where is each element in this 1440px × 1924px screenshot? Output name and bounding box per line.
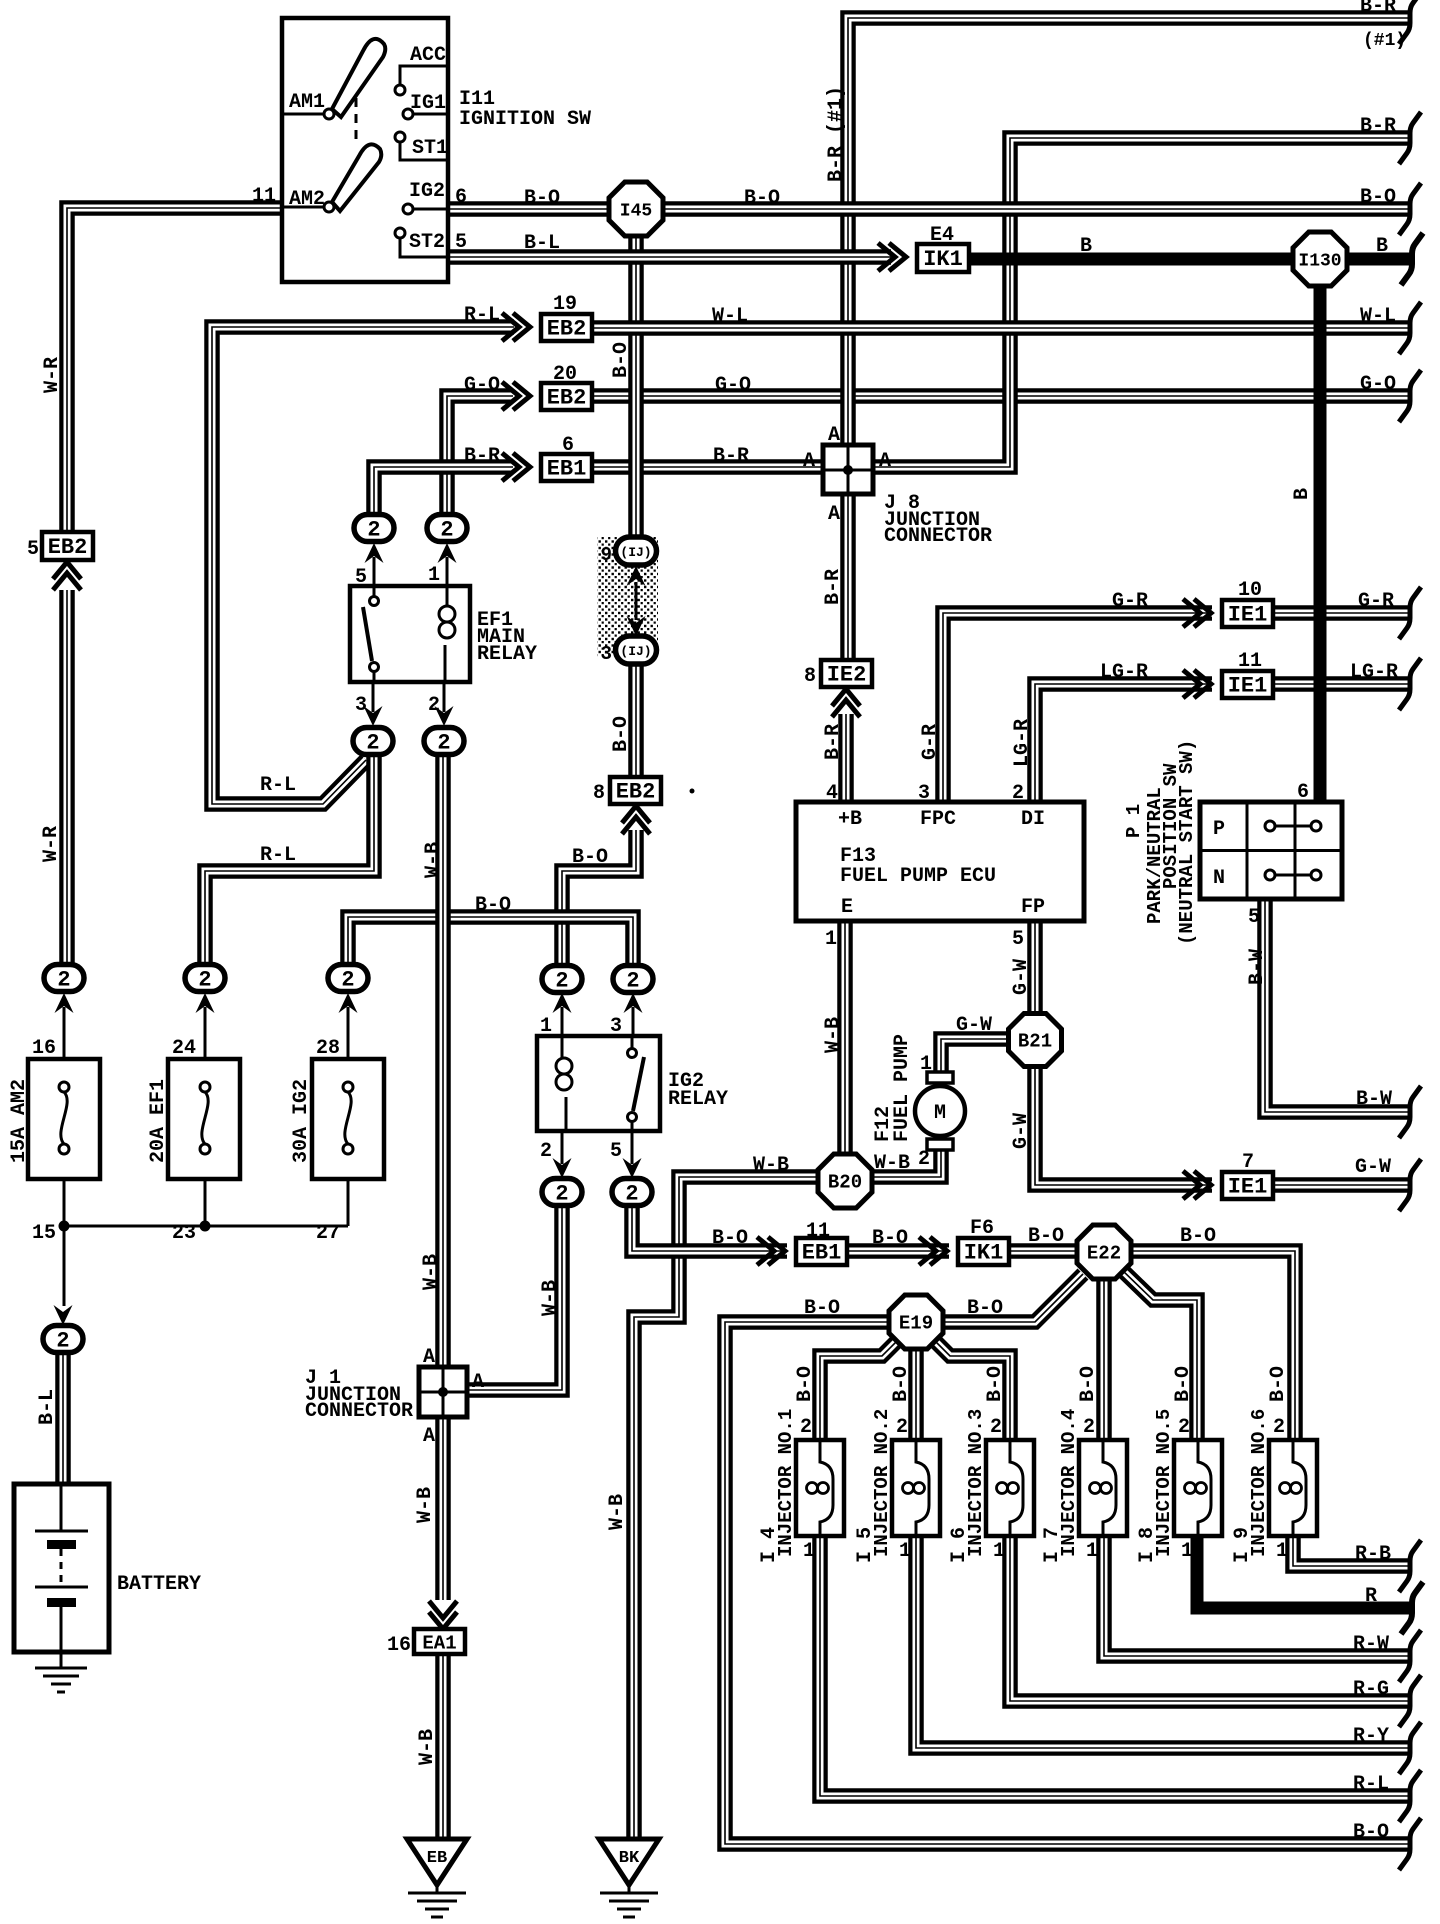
fuse 15A AM2 body [28, 1059, 100, 1179]
relay IG2 body [537, 1036, 660, 1131]
svg-text:A: A [423, 1346, 435, 1369]
svg-text:EB2: EB2 [616, 780, 656, 805]
connector IE1 pin 10 [1222, 600, 1273, 628]
svg-text:3: 3 [601, 643, 612, 665]
svg-text:P 1: P 1 [1123, 804, 1145, 838]
svg-text:B: B [1291, 488, 1314, 500]
svg-text:CONNECTOR: CONNECTOR [884, 525, 992, 548]
svg-text:R-G: R-G [1353, 1678, 1389, 1701]
svg-text:B-R: B-R [1360, 115, 1396, 138]
wire B-O: I45 down to IJ connector 9 [628, 236, 644, 551]
svg-text:1: 1 [803, 1540, 815, 1563]
svg-text:W-B: W-B [539, 1280, 562, 1316]
continuation hook at right edge y=209 [1399, 183, 1421, 235]
injector NO.3 (I 6) body [986, 1440, 1034, 1536]
svg-text:11: 11 [252, 185, 276, 208]
svg-text:(NEUTRAL START SW): (NEUTRAL START SW) [1176, 740, 1198, 945]
wire B-R: EB1 pin 6 to J8 junction connector [592, 459, 823, 475]
wire W-R: below EB2 5 down to fuse AM2 connector [59, 590, 75, 978]
svg-text:2: 2 [990, 1416, 1002, 1439]
relay IG2 switch contact [628, 1036, 645, 1131]
svg-text:2: 2 [440, 518, 453, 543]
svg-text:B-O: B-O [1353, 1821, 1389, 1844]
svg-text:G-W: G-W [1355, 1156, 1391, 1179]
svg-text:B-R: B-R [464, 445, 500, 468]
relay EF1 body [350, 586, 470, 682]
svg-text:B-W: B-W [1246, 949, 1269, 985]
ignition switch ACC terminal [395, 66, 446, 95]
wire W-B: fuel pump ECU E pin 1 down to B20 [837, 921, 853, 1156]
svg-text:3: 3 [918, 782, 930, 805]
svg-text:P: P [1213, 818, 1225, 841]
svg-text:G-O: G-O [1360, 373, 1396, 396]
chevron arrows into IE1 pin 11 [1183, 670, 1211, 698]
svg-text:W-B: W-B [874, 1152, 910, 1175]
svg-text:2: 2 [437, 731, 450, 756]
connector E19 [889, 1295, 943, 1349]
wire LG-R: fuel pump ECU DI pin 2 up to IE1 pin 11 [1035, 684, 1212, 802]
svg-text:DI: DI [1021, 808, 1045, 831]
svg-text:B-O: B-O [712, 1227, 748, 1250]
chevron arrows into EB2 pin 5 [53, 562, 81, 590]
svg-text:11: 11 [806, 1220, 830, 1243]
wire G-R: fuel pump ECU FPC pin 3 up to IE1 pin 10 [943, 613, 1212, 802]
svg-text:8: 8 [804, 665, 816, 688]
arrow into connector above IG2 fuse [339, 993, 358, 1059]
wire B thick: I130 down to park/neutral SW pin 6 [1314, 280, 1327, 802]
svg-text:2: 2 [896, 1416, 908, 1439]
svg-text:IE1: IE1 [1228, 1175, 1268, 1200]
connector 2 below IG2 pin 5 [612, 1179, 652, 1207]
connector EB2 pin 19 [541, 314, 592, 342]
connector 2 above IG2 pin 1 [542, 966, 582, 994]
svg-text:INJECTOR NO.6: INJECTOR NO.6 [1248, 1409, 1270, 1557]
wire R-G: injector NO.3 pin 1 to right edge [1010, 1536, 1412, 1701]
fuel pump ECU F13 body [796, 802, 1084, 921]
svg-text:W-R: W-R [41, 357, 64, 393]
wire B-O: IJ connector 3 down to EB2 pin 8 [628, 652, 644, 777]
wire B-L: ignition SW ST2 pin 5 to E4 IK1 [448, 249, 891, 265]
continuation hook thick R [1401, 1582, 1423, 1634]
svg-text:11: 11 [1238, 650, 1262, 673]
connector B21 [1009, 1014, 1062, 1067]
injector NO.3 coil [997, 1440, 1024, 1536]
wire W-B: B20 left then down to BK ground [634, 1177, 820, 1840]
svg-text:7: 7 [1242, 1151, 1254, 1174]
injector NO.6 coil [1280, 1440, 1307, 1536]
battery ground [35, 1652, 87, 1692]
svg-text:INJECTOR NO.3: INJECTOR NO.3 [965, 1409, 987, 1557]
wire B-R: IE2 pin 8 down to fuel pump ECU +B [838, 714, 854, 802]
injector NO.4 coil [1090, 1440, 1117, 1536]
svg-text:10: 10 [1238, 579, 1262, 602]
wire B-R: J8 right to upper right edge [873, 138, 1412, 467]
svg-text:G-W: G-W [956, 1014, 992, 1037]
svg-text:1: 1 [540, 1015, 552, 1038]
wire B-O: EB2 pin 8 down to IG2 relay pin 1 [562, 830, 636, 979]
svg-text:1: 1 [428, 564, 440, 587]
ground point EB [407, 1839, 467, 1917]
connector 2 below IG2 pin 2 [542, 1179, 582, 1207]
wire B-O: E22 right then down to injector NO.6 [1130, 1251, 1295, 1442]
wire W-R: ignition SW AM2 pin 11 to junction EB2 pin 5 [67, 208, 282, 534]
svg-text:EA1: EA1 [422, 1633, 456, 1655]
svg-text:2: 2 [56, 1329, 69, 1354]
svg-text:B-O: B-O [744, 187, 780, 210]
P1 contact N row [1265, 870, 1321, 880]
wire R thick: injector NO.5 pin 1 to right edge [1197, 1536, 1412, 1608]
arrow into connector above IG2 pin 1 [553, 993, 572, 1036]
svg-text:1: 1 [899, 1540, 911, 1563]
fuse 15A AM2 element [59, 1082, 69, 1154]
svg-text:E4: E4 [930, 224, 954, 247]
svg-text:1: 1 [920, 1053, 932, 1076]
connector 2 above AM2 fuse [44, 965, 84, 993]
continuation hook at right edge y=613 [1399, 587, 1421, 639]
wire B-R (#1): J8 top to top right edge [848, 18, 1412, 445]
svg-text:E19: E19 [899, 1313, 933, 1335]
svg-text:B-O: B-O [524, 187, 560, 210]
svg-text:G-R: G-R [919, 724, 942, 760]
fuse 30A IG2 element [343, 1082, 353, 1154]
arrow into connector below EF1 pin 3 [364, 682, 383, 726]
svg-text:INJECTOR NO.4: INJECTOR NO.4 [1058, 1409, 1080, 1557]
connector 2 above EF1 fuse [185, 965, 225, 993]
svg-text:2: 2 [626, 969, 639, 994]
svg-text:1: 1 [1086, 1540, 1098, 1563]
svg-text:R: R [1365, 1585, 1377, 1608]
svg-text:FPC: FPC [920, 808, 956, 831]
svg-text:IG2: IG2 [409, 180, 445, 203]
svg-text:6: 6 [455, 186, 467, 209]
continuation hook at right edge y=1112 [1399, 1086, 1421, 1138]
svg-text:B21: B21 [1018, 1031, 1052, 1053]
wire W-L: EB2 pin 19 to right edge [592, 320, 1412, 336]
svg-text:5: 5 [1248, 906, 1260, 929]
svg-text:9: 9 [601, 544, 612, 566]
connector IJ pin 9 [601, 537, 657, 566]
connector EA1 pin 16 [414, 1629, 465, 1655]
arrow into connector below IG2 pin 5 [623, 1131, 642, 1178]
ground point BK [599, 1839, 659, 1917]
junction connector J8 [823, 445, 873, 494]
relay EF1 coil [439, 586, 455, 682]
injector NO.2 coil [903, 1440, 930, 1536]
svg-text:1: 1 [825, 928, 837, 951]
wire R-Y: injector NO.2 pin 1 to right edge [916, 1536, 1412, 1748]
chevron arrows into EB2 pin 19 [502, 313, 530, 341]
svg-text:N: N [1213, 867, 1225, 890]
arrow into connector below AM2 fuse [54, 1305, 73, 1325]
injector NO.2 (I 5) body [892, 1440, 940, 1536]
connector IE1 pin 7 [1222, 1172, 1273, 1200]
svg-text:E22: E22 [1087, 1243, 1121, 1265]
chevron arrows into IE1 pin 7 [1183, 1171, 1211, 1199]
wire thin: fuse bottoms bus [64, 1179, 348, 1306]
continuation hook thick B [1401, 233, 1423, 285]
continuation hook at right edge y=1656 [1399, 1630, 1421, 1682]
connector I45 [609, 182, 663, 236]
stray dot [690, 789, 695, 794]
svg-text:2: 2 [555, 1182, 568, 1207]
svg-text:INJECTOR NO.2: INJECTOR NO.2 [871, 1409, 893, 1557]
injector NO.1 coil [807, 1440, 834, 1536]
svg-text:FUEL PUMP: FUEL PUMP [891, 1034, 914, 1142]
junction dot at EF1 fuse bus [200, 1221, 211, 1232]
svg-text:IG1: IG1 [410, 92, 446, 115]
connector B20 [818, 1154, 872, 1208]
connector EB2 pin 20 [541, 383, 592, 411]
svg-text:B20: B20 [828, 1172, 862, 1194]
svg-text:8: 8 [593, 782, 605, 805]
wire B-O: E19 left then down to bottom right edge [725, 1322, 1412, 1844]
wire W-B: B20 right to fuel pump pin 2 [870, 1150, 941, 1177]
svg-text:G-O: G-O [715, 374, 751, 397]
wire G-W: B21 up to fuel pump ECU FP pin 5 [1027, 921, 1043, 1016]
connector 2 below EF1 pin 3 [353, 728, 393, 756]
wire B-O: E19 to injector NO.3 [933, 1339, 1010, 1442]
svg-text:W-B: W-B [606, 1494, 629, 1530]
svg-text:B-O: B-O [872, 1227, 908, 1250]
arrow into connector below EF1 pin 2 [435, 682, 454, 726]
svg-text:3: 3 [355, 694, 367, 717]
continuation hook at right edge y=1844 [1399, 1818, 1421, 1870]
fuse 20A EF1 body [168, 1059, 240, 1179]
battery body [14, 1484, 109, 1652]
svg-text:INJECTOR NO.5: INJECTOR NO.5 [1153, 1409, 1175, 1557]
chevron arrows into IE2 pin 8 [832, 689, 860, 717]
svg-text:RELAY: RELAY [477, 643, 537, 666]
chevron arrows into E4 IK1 [878, 243, 906, 271]
svg-text:B: B [1080, 235, 1092, 258]
svg-text:LG-R: LG-R [1011, 719, 1034, 767]
svg-text:B-R: B-R [1360, 0, 1396, 18]
svg-text:R-B: R-B [1355, 1543, 1391, 1566]
svg-text:A: A [828, 424, 840, 447]
svg-text:B-O: B-O [794, 1366, 817, 1402]
svg-text:IK1: IK1 [923, 247, 963, 272]
continuation hook at right edge y=138 [1399, 112, 1421, 164]
wire B-L: battery positive up to fuse connector [55, 1352, 71, 1484]
svg-text:2: 2 [341, 968, 354, 993]
svg-text:BATTERY: BATTERY [117, 1573, 201, 1596]
wire B-R: EF1 relay pin 5 up to EB1 pin 6 row [374, 467, 513, 516]
svg-text:ST1: ST1 [412, 137, 448, 160]
continuation hook at right edge y=18 [1399, 0, 1421, 44]
svg-text:A: A [472, 1371, 484, 1394]
svg-text:2: 2 [198, 968, 211, 993]
connector E22 [1077, 1225, 1131, 1279]
svg-text:R-Y: R-Y [1353, 1725, 1389, 1748]
svg-text:B-O: B-O [475, 894, 511, 917]
arrow into connector above EF1 pin 1 [438, 543, 457, 586]
svg-text:B-R: B-R [822, 569, 845, 605]
svg-text:2: 2 [1273, 1416, 1285, 1439]
wire B thick: E4 IK1 through I130 to right edge [969, 253, 1412, 266]
svg-text:(IJ): (IJ) [620, 644, 651, 659]
svg-text:3: 3 [610, 1015, 622, 1038]
svg-text:G-W: G-W [1010, 959, 1033, 995]
svg-text:16: 16 [32, 1037, 56, 1060]
ignition switch ST2 terminal [395, 228, 446, 257]
svg-text:B-O: B-O [804, 1297, 840, 1320]
injector NO.4 (I 7) body [1079, 1440, 1127, 1536]
svg-text:16: 16 [387, 1634, 411, 1657]
svg-text:ST2: ST2 [409, 231, 445, 254]
svg-text:15: 15 [32, 1222, 56, 1245]
svg-text:5: 5 [1012, 928, 1024, 951]
svg-text:BK: BK [619, 1849, 640, 1868]
arrow into connector above IG2 pin 3 [624, 993, 643, 1036]
svg-text:IE2: IE2 [827, 663, 867, 688]
svg-text:B-W: B-W [1356, 1088, 1392, 1111]
svg-text:CONNECTOR: CONNECTOR [305, 1400, 413, 1423]
wire B-O: IG2 relay pin 5 down to EB1 pin 11 row [632, 1204, 787, 1251]
svg-text:F6: F6 [970, 1217, 994, 1240]
svg-text:W-L: W-L [712, 305, 748, 328]
wire B-O: E19 to injector NO.1 [820, 1339, 899, 1442]
ignition switch AM2 contact and lever [284, 144, 381, 212]
connector IJ pin 3 [601, 636, 657, 665]
svg-text:24: 24 [172, 1037, 196, 1060]
connector IE2 pin 8 [821, 660, 872, 688]
svg-text:4: 4 [826, 782, 838, 805]
svg-text:W-R: W-R [40, 826, 63, 862]
chevron arrows into F6 IK1 [919, 1237, 947, 1265]
continuation hook at right edge y=1566 [1399, 1540, 1421, 1592]
svg-text:INJECTOR NO.1: INJECTOR NO.1 [775, 1409, 797, 1557]
wire G-O: EB2 pin 20 to right edge [592, 388, 1412, 404]
connector 2 above IG2 fuse [328, 965, 368, 993]
svg-text:G-R: G-R [1112, 590, 1148, 613]
svg-text:B-O: B-O [1172, 1366, 1195, 1402]
wire W-B: EA1 pin 16 down to EB ground [435, 1653, 451, 1840]
svg-text:W-B: W-B [420, 1254, 443, 1290]
svg-text:2: 2 [918, 1148, 930, 1171]
junction connector J1 [419, 1367, 467, 1417]
svg-text:W-B: W-B [422, 842, 445, 878]
svg-text:19: 19 [553, 293, 577, 316]
wire R-L: EF1 relay pin 3 down to 20A EF1 fuse [205, 754, 374, 966]
injector NO.6 (I 9) body [1269, 1440, 1317, 1536]
wire W-B: J1 down to EA1 pin 16 [435, 1417, 451, 1600]
wire B-W: park/neutral SW pin 5 down to right edge [1265, 899, 1412, 1112]
continuation hook at right edge y=1748 [1399, 1722, 1421, 1774]
svg-text:ACC: ACC [410, 44, 446, 67]
svg-text:R-L: R-L [260, 774, 296, 797]
wire R-B: injector NO.6 pin 1 to right edge [1293, 1536, 1412, 1566]
wire B-O: E19 to E22 link [942, 1274, 1083, 1322]
svg-text:6: 6 [1297, 781, 1309, 804]
svg-text:EB2: EB2 [48, 535, 88, 560]
arrow into connector above AM2 fuse [55, 993, 74, 1059]
connector 2 below AM2 fuse [43, 1326, 83, 1354]
svg-text:20A EF1: 20A EF1 [147, 1079, 170, 1163]
ignition switch rotor dashed link [355, 98, 358, 144]
svg-text:+B: +B [838, 808, 862, 831]
connector E4 IK1 [917, 244, 969, 272]
svg-text:I45: I45 [620, 202, 652, 222]
wire B-O: E19 down to injector NO.2 [908, 1348, 924, 1442]
svg-text:B: B [1376, 235, 1388, 258]
svg-text:EB: EB [427, 1849, 447, 1868]
svg-text:A: A [803, 450, 815, 473]
svg-text:IE1: IE1 [1228, 603, 1268, 628]
svg-text:B-O: B-O [1180, 1225, 1216, 1248]
svg-text:2: 2 [367, 518, 380, 543]
svg-text:2: 2 [1012, 782, 1024, 805]
connector EB2 pin 8 [610, 777, 661, 805]
connector IE1 pin 11 [1222, 671, 1273, 699]
injector NO.5 coil [1185, 1440, 1212, 1536]
svg-text:B-O: B-O [1360, 186, 1396, 209]
chevron arrows into EB1 pin 6 [502, 453, 530, 481]
injector NO.5 (I 8) body [1174, 1440, 1222, 1536]
svg-text:AM2: AM2 [289, 188, 325, 211]
wire G-R: IE1 pin 10 to right edge [1273, 605, 1412, 621]
svg-text:B-O: B-O [890, 1366, 913, 1402]
connector 2 above EF1 pin 1 [427, 515, 467, 543]
svg-text:A: A [828, 503, 840, 526]
stipple background of IJ joint [597, 537, 658, 657]
wire W-B: EF1 relay pin 2 down to J1 junction connector [435, 754, 451, 1367]
svg-text:LG-R: LG-R [1350, 661, 1398, 684]
svg-text:B-O: B-O [610, 716, 633, 752]
svg-text:M: M [934, 1102, 946, 1125]
ignition switch I11 body [282, 18, 448, 282]
svg-text:5: 5 [455, 231, 467, 254]
continuation hook at right edge y=1185 [1399, 1159, 1421, 1211]
arrow into connector above EF1 fuse [196, 993, 215, 1059]
continuation hook at right edge y=328 [1399, 302, 1421, 354]
svg-text:R-L: R-L [260, 844, 296, 867]
junction dot at AM2 fuse bus [59, 1221, 70, 1232]
svg-text:B-O: B-O [610, 342, 633, 378]
svg-text:1: 1 [1276, 1540, 1288, 1563]
wire W-B: IG2 relay pin 2 down to J1 junction connector [467, 1204, 562, 1390]
svg-text:G-W: G-W [1010, 1113, 1033, 1149]
svg-text:2: 2 [57, 968, 70, 993]
continuation hook at right edge y=396 [1399, 370, 1421, 422]
svg-text:5: 5 [610, 1140, 622, 1163]
svg-text:2: 2 [540, 1140, 552, 1163]
ignition switch IG2 terminal [403, 204, 446, 214]
arrow into connector below IG2 pin 2 [553, 1131, 572, 1178]
svg-text:FUEL PUMP ECU: FUEL PUMP ECU [840, 865, 996, 888]
svg-text:W-B: W-B [416, 1729, 439, 1765]
svg-text:B-O: B-O [984, 1366, 1007, 1402]
chevron arrows into EA1 pin 16 [429, 1601, 457, 1629]
svg-text:B-O: B-O [572, 846, 608, 869]
svg-text:2: 2 [1178, 1416, 1190, 1439]
svg-text:15A AM2: 15A AM2 [8, 1079, 31, 1163]
svg-text:A: A [879, 450, 891, 473]
svg-text:G-O: G-O [464, 374, 500, 397]
svg-text:2: 2 [1083, 1416, 1095, 1439]
wire B-O: 30A IG2 fuse up to IG2 relay pin 3 [348, 917, 633, 964]
ignition switch ST1 terminal [395, 132, 446, 160]
arrow down between IJ connectors [627, 616, 646, 636]
svg-text:EB1: EB1 [802, 1241, 842, 1266]
connector 2 above IG2 pin 3 [613, 966, 653, 994]
svg-text:2: 2 [366, 731, 379, 756]
svg-text:RELAY: RELAY [668, 1088, 728, 1111]
fuse 20A EF1 element [200, 1082, 210, 1154]
wire G-W: B21 down to IE1 pin 7 [1035, 1064, 1212, 1185]
wire G-W: fuel pump pin 1 up to B21 [941, 1039, 1010, 1077]
relay EF1 switch contact [363, 586, 379, 682]
svg-text:1: 1 [1181, 1540, 1193, 1563]
